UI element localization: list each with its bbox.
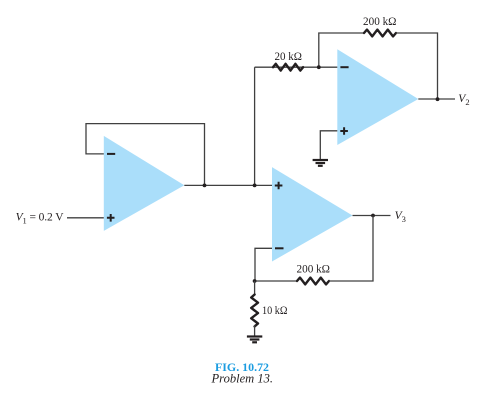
op-amp U2 plus pin symbol — [340, 127, 348, 135]
wire: U3 inverting input left and down to feedback node — [255, 248, 272, 281]
node: U1 feedback tap on output bus — [203, 184, 207, 188]
node: feedback / 10k junction — [253, 279, 257, 283]
resistor R=20k (input) — [273, 64, 303, 71]
node: feedback tap at U2 inverting input — [317, 65, 321, 69]
node: U2 output junction — [436, 97, 440, 101]
wire: U2 non-inverting input to ground — [320, 131, 337, 159]
resistor R=10k (to ground) — [251, 295, 258, 327]
node: U3 output junction — [371, 214, 375, 218]
op-amp U3 (middle, output V3) body — [272, 167, 353, 261]
wire: 200k right end down to U2 output — [396, 33, 438, 99]
ground (U2 non-inverting input) — [313, 160, 328, 166]
ground (below 10k) — [247, 337, 262, 343]
resistor R=200k (U2 feedback) — [364, 30, 396, 37]
op-amp U3 minus pin symbol — [275, 247, 284, 249]
op-amp U2 minus pin symbol — [340, 66, 348, 68]
wire: U1 feedback loop from inverting input over the top to output — [86, 124, 205, 186]
op-amp U1 plus pin symbol — [107, 214, 115, 222]
wire: 20k input line into U2 inverting input — [255, 66, 338, 68]
wire: U3 output to V3 terminal — [353, 215, 391, 217]
wire: V1 source to U1 non-inverting input — [67, 217, 104, 219]
wire: junction down to 10k resistor — [254, 281, 256, 295]
op-amp U1 (voltage follower) body — [104, 136, 185, 231]
wire: bottom feedback left segment — [255, 280, 297, 282]
op-amp U2 (top right) body — [337, 49, 418, 145]
svg-text:Problem 13.: Problem 13. — [210, 372, 273, 386]
wire: U2 feedback, node up and left to 200k — [319, 33, 364, 67]
wire: U2 output to V2 terminal — [418, 98, 455, 100]
svg-text:10 kΩ: 10 kΩ — [262, 305, 288, 317]
wire: bottom feedback right segment up to U3 output — [329, 216, 373, 282]
node: 20k branch tap on output bus — [253, 184, 257, 188]
wire: 10k bottom to ground — [254, 325, 256, 336]
svg-text:200 kΩ: 200 kΩ — [363, 16, 397, 28]
resistor R=200k (U3 feedback) — [297, 278, 329, 285]
svg-text:200 kΩ: 200 kΩ — [297, 264, 331, 276]
wire: U1 output bus to U3 non-inverting input — [184, 184, 272, 186]
op-amp U3 plus pin symbol — [275, 182, 283, 190]
svg-text:20 kΩ: 20 kΩ — [275, 51, 303, 63]
wire: vertical from 20k node down to follower output bus — [254, 67, 256, 185]
op-amp U1 minus pin symbol — [107, 153, 115, 155]
